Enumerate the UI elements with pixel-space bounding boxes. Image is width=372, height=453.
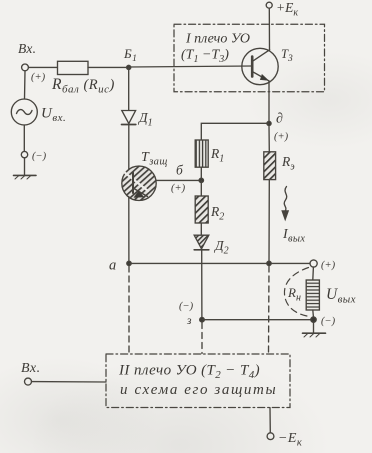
svg-text:Iвых: Iвых: [282, 227, 305, 245]
svg-text:R1: R1: [210, 146, 224, 165]
squiggle arrow Ivyx: [282, 187, 289, 221]
svg-text:Б1: Б1: [123, 46, 137, 64]
node B1: [127, 65, 131, 69]
wire node a to output plus terminal: [129, 262, 310, 264]
wire node E to R1 top: [201, 123, 269, 140]
svg-text:и схема его защиты: и схема его защиты: [120, 382, 277, 398]
wire Vx bottom to box II: [32, 381, 107, 383]
svg-text:Тзащ: Тзащ: [141, 150, 168, 168]
ground input: [14, 175, 37, 179]
svg-text:Uвых: Uвых: [326, 286, 356, 306]
diode D1: [122, 111, 136, 125]
wire plus terminal down to Rn: [312, 267, 315, 280]
dashed arc Rn: [284, 268, 309, 317]
svg-text:(T1 −T3): (T1 −T3): [181, 48, 229, 66]
wire +Ek to collector: [268, 8, 270, 50]
ground output: [303, 333, 326, 337]
dashed wire node z to box II: [201, 323, 203, 354]
svg-text:+Eк: +Eк: [276, 0, 298, 19]
svg-text:Д2: Д2: [213, 238, 229, 257]
node junction at x269 y263: [267, 261, 271, 265]
svg-text:Д1: Д1: [137, 110, 153, 129]
resistor Rbal: [58, 61, 89, 74]
svg-text:б: б: [176, 163, 184, 178]
node E (emitter node): [267, 121, 271, 125]
svg-text:Rн: Rн: [287, 285, 301, 304]
svg-text:(−): (−): [179, 301, 194, 312]
transistor T3: [242, 48, 278, 84]
wire diode D1 top from node B1: [128, 67, 130, 110]
svg-text:II плечо УО (T2 − T4): II плечо УО (T2 − T4): [118, 363, 260, 382]
terminal Vx bottom: [25, 378, 32, 385]
svg-text:a: a: [109, 258, 116, 274]
wire Rn to minus terminal: [312, 310, 315, 317]
svg-text:(−): (−): [32, 151, 47, 162]
terminal +Ek: [266, 2, 272, 8]
svg-text:(−): (−): [321, 316, 336, 327]
svg-text:Uвх.: Uвх.: [41, 106, 66, 125]
wire R1 bottom to node b: [200, 167, 202, 180]
wire input top from terminal to Rbal: [29, 66, 58, 68]
node z: [200, 317, 205, 322]
svg-text:I плечо УО: I плечо УО: [185, 32, 250, 47]
terminal output minus: [311, 317, 316, 322]
svg-text:Rэ: Rэ: [281, 154, 295, 173]
terminal output plus: [310, 260, 317, 267]
node b: [199, 178, 203, 182]
wire emitter down to node E: [268, 81, 270, 124]
wire source to (-) terminal: [23, 125, 25, 151]
svg-text:Вх.: Вх.: [18, 41, 36, 56]
svg-text:∂: ∂: [276, 112, 283, 127]
svg-text:Вх.: Вх.: [21, 361, 41, 376]
wire box II to -Ek terminal: [269, 408, 271, 433]
resistor Re: [264, 152, 276, 180]
svg-text:з: з: [186, 315, 192, 327]
transistor Tzasch: [122, 166, 156, 200]
svg-text:(+): (+): [31, 72, 46, 83]
svg-text:(+): (+): [274, 132, 289, 143]
dashed wire output node to box II: [268, 266, 271, 354]
box II arm dash-dot: [106, 354, 290, 408]
wire Re down to node at y263: [268, 180, 270, 264]
resistor R2: [195, 196, 208, 223]
wire D2 down to node z: [201, 250, 203, 320]
box I arm dash-dot: [174, 24, 325, 92]
svg-text:Rбал (Rис): Rбал (Rис): [51, 76, 115, 96]
wire minus terminal to ground: [313, 322, 315, 333]
wire node B1 to transistor base: [129, 66, 252, 67]
wire terminal to ground: [24, 158, 26, 175]
wire Rbal to node B1: [88, 66, 129, 68]
wire terminal to source: [24, 71, 27, 99]
wire Tzasch to node b: [156, 179, 201, 181]
source Uvx: [11, 99, 37, 125]
svg-text:R2: R2: [210, 204, 224, 223]
wire Tzasch down to node a: [128, 197, 130, 264]
resistor R1: [195, 140, 208, 167]
wire node b to R2: [200, 180, 202, 196]
wire R2 to diode D2: [200, 223, 202, 235]
wire node z to output minus terminal: [202, 319, 311, 321]
svg-text:(+): (+): [171, 183, 186, 194]
wire D1 to Tzasch: [128, 125, 130, 171]
svg-text:(+): (+): [321, 260, 336, 271]
dashed wire node a to box II: [128, 266, 130, 354]
terminal (-) input: [21, 151, 27, 157]
wire node E down to Re: [268, 126, 270, 152]
svg-text:T3: T3: [281, 47, 293, 64]
terminal -Ek: [267, 433, 274, 440]
svg-text:−Eк: −Eк: [278, 431, 302, 449]
diode D2: [194, 235, 209, 250]
terminal Vx input (+): [22, 64, 29, 71]
resistor Rn load: [306, 280, 319, 310]
node a: [127, 261, 131, 265]
